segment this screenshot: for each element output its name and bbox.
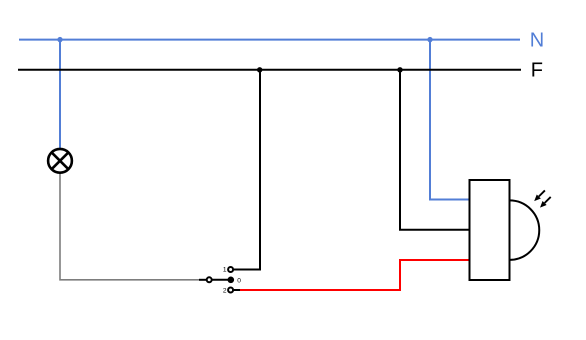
svg-text:F: F — [531, 59, 543, 81]
svg-text:N: N — [530, 29, 544, 51]
svg-text:1: 1 — [223, 267, 227, 274]
svg-text:0: 0 — [237, 277, 241, 284]
svg-text:2: 2 — [223, 288, 227, 295]
